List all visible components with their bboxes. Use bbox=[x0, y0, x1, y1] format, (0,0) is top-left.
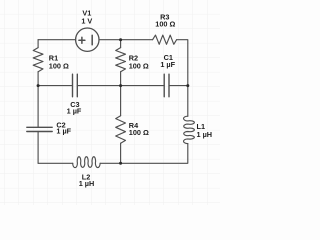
svg-text:1 µF: 1 µF bbox=[67, 107, 82, 116]
svg-text:1 µH: 1 µH bbox=[79, 179, 95, 188]
wire: C3 to mid junction bbox=[77, 85, 120, 87]
wire: left rail top lead bbox=[37, 40, 39, 48]
wire: C2 bottom to bottom-left corner bbox=[37, 132, 39, 164]
wire: R2 top lead from top junction bbox=[120, 40, 122, 48]
wire: mid junction to R4 top bbox=[120, 86, 122, 116]
wire: mid-left to C3 bbox=[38, 85, 72, 87]
wire: R4 bottom to bottom junction bbox=[120, 143, 122, 163]
resistor R1 bbox=[33, 48, 43, 72]
inductor L1 bbox=[184, 116, 195, 143]
wire: R2 bottom to mid junction bbox=[120, 72, 122, 86]
wire: mid junction to C1 bbox=[121, 85, 165, 87]
wire: R1 bottom to mid junction bbox=[37, 72, 39, 86]
svg-text:1 µF: 1 µF bbox=[160, 60, 175, 69]
svg-text:1 V: 1 V bbox=[81, 17, 92, 26]
wire: L2 to bottom junction bbox=[100, 162, 121, 164]
capacitor C3 bbox=[73, 74, 78, 97]
resistor R3 bbox=[153, 35, 177, 44]
wire: bottom-left to L2 bbox=[38, 162, 73, 164]
svg-text:100 Ω: 100 Ω bbox=[49, 61, 69, 70]
svg-text:100 Ω: 100 Ω bbox=[129, 61, 149, 70]
wire top-right: R3 to corner bbox=[177, 40, 188, 86]
svg-text:100 Ω: 100 Ω bbox=[155, 19, 175, 28]
inductor L2 bbox=[73, 157, 100, 168]
node: right mid junction (C1/rail) bbox=[186, 84, 189, 87]
voltage source V1 bbox=[76, 28, 99, 51]
wire: C1 to right rail junction bbox=[169, 85, 188, 87]
node: bottom junction (L2/R4/wire) bbox=[119, 162, 122, 165]
svg-text:1 µF: 1 µF bbox=[56, 127, 71, 136]
wire: bottom junction to bottom-right corner bbox=[121, 144, 188, 164]
svg-text:100 Ω: 100 Ω bbox=[129, 128, 149, 137]
V1 plus sign bbox=[79, 37, 85, 43]
svg-text:1 µH: 1 µH bbox=[197, 130, 213, 139]
node: mid junction (C3/R2/C1/R4) bbox=[119, 84, 122, 87]
wire: mid junction left rail down to C2 bbox=[37, 86, 39, 128]
wire top-left: corner to V1 left terminal bbox=[38, 39, 76, 41]
wire top: V1 right terminal to R3 bbox=[99, 39, 153, 41]
resistor R2 bbox=[116, 48, 126, 72]
capacitor C2 bbox=[27, 127, 52, 131]
resistor R4 bbox=[116, 116, 126, 144]
capacitor C1 bbox=[164, 74, 169, 97]
wire: right rail junction to L1 top bbox=[187, 86, 189, 117]
V1 minus sign (rotated, vertical bar) bbox=[91, 35, 93, 45]
node: top junction (V1/R2/R3) bbox=[119, 38, 122, 41]
node: left mid junction (R1/C3/C2) bbox=[37, 84, 40, 87]
